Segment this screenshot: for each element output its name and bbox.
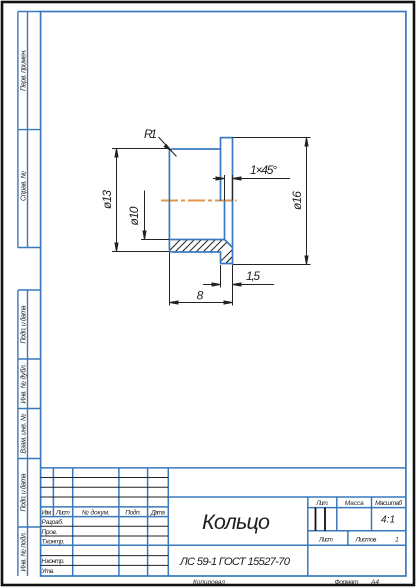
centerline [161, 200, 237, 202]
svg-text:Масса: Масса [345, 500, 364, 507]
svg-text:Взам. инв. №: Взам. инв. № [20, 413, 27, 453]
svg-text:Подп. и дата: Подп. и дата [19, 473, 27, 511]
dimension ⌀13 [112, 149, 169, 252]
svg-text:1×45°: 1×45° [250, 163, 277, 177]
svg-text:ø10: ø10 [127, 206, 141, 225]
dimension 1x45 [213, 175, 290, 201]
svg-text:Инв. № подл.: Инв. № подл. [19, 531, 27, 571]
dimension ⌀16 [233, 138, 311, 265]
left margin columns [18, 12, 41, 577]
svg-text:R1: R1 [144, 127, 157, 141]
svg-text:A4: A4 [370, 579, 379, 586]
below frame texts [193, 579, 379, 586]
svg-text:8: 8 [197, 289, 204, 303]
left margin labels [19, 49, 27, 572]
svg-text:Н.контр.: Н.контр. [42, 558, 65, 565]
svg-text:1: 1 [395, 537, 399, 544]
svg-text:Пров.: Пров. [42, 529, 58, 536]
dimension 8 [170, 252, 233, 306]
hatching [160, 230, 266, 273]
title block texts [42, 509, 166, 517]
svg-text:ø13: ø13 [100, 190, 114, 209]
svg-text:ЛС 59-1 ГОСТ 15527-70: ЛС 59-1 ГОСТ 15527-70 [179, 556, 291, 568]
part outline [169, 138, 232, 264]
svg-text:Листов: Листов [355, 537, 378, 544]
svg-text:Копировал: Копировал [193, 579, 225, 586]
svg-text:1,5: 1,5 [246, 269, 260, 283]
svg-text:Дата: Дата [150, 510, 165, 517]
dimension 1,5 [203, 265, 274, 288]
svg-text:Разраб.: Разраб. [42, 518, 64, 526]
title block grid [41, 468, 406, 576]
svg-text:Лист: Лист [55, 510, 71, 517]
title block thin black rows [41, 478, 169, 566]
svg-text:ø16: ø16 [290, 191, 304, 210]
svg-text:Подп.: Подп. [125, 509, 141, 517]
svg-text:№ докум.: № докум. [82, 509, 110, 517]
svg-text:Масштаб: Масштаб [375, 499, 402, 507]
svg-text:Справ. №: Справ. № [20, 171, 27, 201]
svg-text:Утв.: Утв. [41, 568, 55, 575]
lit cell black dividers [316, 508, 326, 531]
svg-text:Лист: Лист [318, 537, 334, 544]
radius R1 [159, 137, 177, 157]
dimension ⌀10 [141, 191, 169, 240]
svg-text:Кольцо: Кольцо [202, 510, 270, 534]
svg-text:Инв. № дубл.: Инв. № дубл. [19, 363, 27, 403]
svg-text:Перв. примен.: Перв. примен. [20, 49, 27, 91]
svg-text:4:1: 4:1 [381, 515, 395, 526]
svg-text:Формат: Формат [335, 579, 360, 586]
svg-text:Т.контр.: Т.контр. [42, 539, 65, 546]
svg-text:Изм.: Изм. [42, 510, 52, 517]
svg-text:Лит.: Лит. [315, 500, 328, 507]
svg-text:Подп. и дата: Подп. и дата [19, 305, 27, 343]
